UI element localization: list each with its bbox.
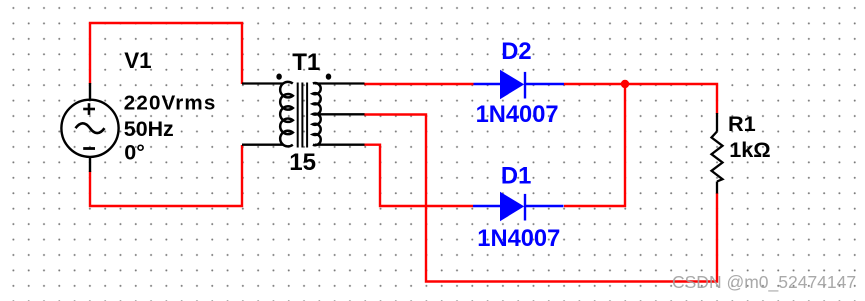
svg-text:15: 15 xyxy=(289,149,316,176)
svg-text:1kΩ: 1kΩ xyxy=(729,137,771,162)
transformer T1 xyxy=(242,75,365,148)
secondary pin center tap xyxy=(313,113,365,115)
wire D1 cathode up to junction (red) xyxy=(564,84,625,206)
primary coil (5 loops) xyxy=(280,82,293,147)
secondary pin bottom xyxy=(315,144,365,146)
phase dot secondary xyxy=(327,75,330,79)
phase dot primary xyxy=(278,75,281,79)
primary pin bottom xyxy=(242,144,284,146)
svg-text:D2: D2 xyxy=(501,38,531,65)
wire T1 secondary bottom to D1 anode (red) xyxy=(364,145,473,206)
svg-text:1N4007: 1N4007 xyxy=(477,226,560,252)
wire T1 secondary top to D2 anode (red) xyxy=(364,83,474,85)
svg-text:0°: 0° xyxy=(124,140,145,164)
junction dot xyxy=(621,80,629,88)
AC source V1 xyxy=(61,83,118,172)
svg-text:T1: T1 xyxy=(292,49,320,76)
diode D2 xyxy=(474,70,565,99)
svg-text:V1: V1 xyxy=(124,48,151,73)
svg-text:1N4007: 1N4007 xyxy=(476,102,559,128)
svg-text:220Vrms: 220Vrms xyxy=(124,92,216,115)
svg-text:D1: D1 xyxy=(501,163,531,190)
primary pin top xyxy=(242,82,284,84)
secondary coil (6 loops) xyxy=(313,83,321,145)
wire T1 center tap to R1 bottom (red) xyxy=(364,115,717,282)
diode D1 xyxy=(473,192,564,221)
secondary pin top xyxy=(315,82,365,84)
svg-text:CSDN @m0_52474147: CSDN @m0_52474147 xyxy=(672,272,856,293)
wire V1 plus to T1 primary top (red) xyxy=(90,23,242,84)
svg-text:50Hz: 50Hz xyxy=(124,117,174,141)
wire D2 cathode to R1 top (red) xyxy=(564,84,717,114)
wire V1 minus to T1 primary bottom (red) xyxy=(90,145,242,206)
resistor R1 xyxy=(712,113,723,194)
core lines xyxy=(297,83,299,148)
svg-text:R1: R1 xyxy=(728,111,756,136)
